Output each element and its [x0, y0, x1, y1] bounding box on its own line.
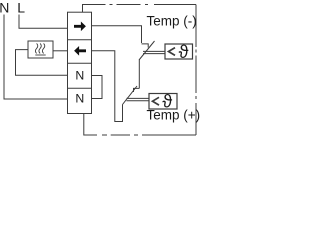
wire heater right to switched-live terminal 2 [53, 50, 67, 52]
wire heater left to N terminal 3 [16, 50, 68, 76]
wire terminal 1 to switch S1 [92, 26, 142, 43]
terminal 1 symbol: bold right arrow [74, 22, 86, 32]
stub terminal block to enclosure bottom [84, 114, 97, 136]
switch S2 blade [123, 86, 138, 105]
terminal 2 symbol: bold left arrow [74, 46, 86, 56]
enclosure border right (dash-dot) [195, 5, 197, 136]
svg-text:ϑ: ϑ [179, 42, 189, 62]
svg-text:N: N [75, 92, 84, 106]
wire terminal 2 to switch S2 pivot [92, 51, 123, 122]
wire L feed to terminal 1 [19, 15, 67, 29]
switch S1 flag [142, 44, 149, 48]
wire switch S1 to switch S2 [138, 60, 140, 89]
capillary link S1 (double line) [143, 51, 165, 53]
svg-text:N: N [0, 0, 9, 16]
stub terminal block to enclosure top [83, 5, 106, 13]
thermostat 2 symbol < theta [153, 97, 160, 105]
svg-text:N: N [75, 69, 84, 83]
svg-text:Temp (+): Temp (+) [147, 107, 201, 122]
svg-text:L: L [17, 0, 25, 16]
switch S2 flag [134, 88, 140, 92]
terminal divider 3 [68, 87, 92, 89]
heating element symbol (3 wavy strokes + base line) [35, 43, 45, 55]
terminal block outline [68, 12, 92, 113]
terminal divider 2 [68, 62, 92, 64]
svg-text:Temp (-): Temp (-) [147, 13, 197, 28]
wire N feed to terminal 4 [4, 15, 67, 100]
heater box (heating element load) [28, 41, 53, 58]
thermostat 1 symbol < theta [169, 48, 176, 56]
enclosure border top (dash-dot) [110, 4, 197, 6]
switch S1 blade [139, 41, 155, 60]
thermostat box 1 [165, 44, 193, 59]
capillary link S2 (double line) [127, 98, 150, 100]
bridge terminal 3 to terminal 4 (N link) [92, 76, 103, 99]
enclosure border bottom (dash-dot) [102, 134, 196, 136]
thermostat box 2 [149, 94, 177, 110]
terminal divider 1 [68, 39, 92, 41]
